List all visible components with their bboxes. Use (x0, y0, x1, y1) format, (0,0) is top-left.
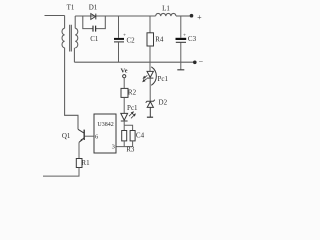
transistor Q1 (78, 129, 84, 158)
zener diode D2 (146, 100, 155, 118)
svg-text:C1: C1 (90, 35, 99, 43)
resistor R1 (76, 159, 82, 168)
arrows of Pc1 right (143, 75, 147, 81)
svg-text:Pc1: Pc1 (127, 104, 138, 112)
diode D1 (91, 14, 96, 20)
optocoupler led Pc1 right (147, 67, 156, 86)
node Ve terminal (123, 75, 126, 78)
svg-text:C3: C3 (188, 35, 197, 43)
svg-text:D2: D2 (159, 99, 168, 107)
snubber wires around C1 (83, 16, 106, 29)
wire R2 to optocoupler led (123, 97, 125, 113)
svg-text:Ve: Ve (121, 68, 128, 75)
svg-text:C2: C2 (127, 36, 136, 44)
optocoupler photodiode Pc1 left (121, 113, 128, 121)
wire Pc1 to D2 (149, 78, 151, 101)
arrows of Pc1 left (129, 112, 135, 118)
wire base to pin6 (84, 135, 94, 137)
capacitor C4 (130, 131, 135, 141)
wire secondary top lead (74, 16, 76, 28)
svg-text:R2: R2 (128, 89, 137, 97)
transformer T1 core (70, 25, 72, 52)
wire R3 bottom (123, 141, 125, 147)
svg-text:R4: R4 (155, 36, 164, 44)
svg-text:R1: R1 (81, 159, 90, 167)
wire primary bottom lead (65, 48, 78, 130)
wire junction down (123, 125, 125, 130)
wire led to junction (123, 121, 125, 125)
wire Ve to R2 (123, 78, 125, 89)
transformer T1 primary winding (62, 28, 65, 48)
wire secondary bottom lead (73, 48, 75, 62)
arrow of Q1 emitter (80, 139, 83, 142)
ic U3842 box (94, 114, 116, 153)
wire top rail right (176, 15, 192, 17)
wire input left (45, 15, 65, 17)
capacitor C2 (114, 16, 124, 62)
svg-text:R3: R3 (126, 145, 135, 153)
wire pin3 to R3 C4 (116, 146, 133, 148)
svg-text:L1: L1 (162, 5, 170, 13)
svg-text:−: − (199, 58, 204, 67)
wire junction to C4 branch (124, 125, 132, 130)
node minus output (193, 61, 197, 65)
wire bottom rail (74, 61, 194, 63)
node plus output (190, 14, 194, 18)
wire C4 bottom (132, 141, 134, 147)
inductor L1 (156, 13, 176, 16)
svg-text:C4: C4 (136, 131, 145, 139)
wire top rail (75, 15, 155, 17)
capacitor C3 (176, 16, 187, 70)
transformer T1 secondary winding (75, 28, 78, 48)
svg-text:Q1: Q1 (62, 132, 71, 140)
wire R1 bottom (43, 168, 79, 177)
svg-text:T1: T1 (67, 4, 75, 12)
capacitor C1 (93, 26, 96, 32)
resistor R3 (122, 131, 127, 141)
resistor R2 (121, 88, 128, 97)
svg-text:+: + (197, 13, 202, 22)
wire rail to Pc1 right (149, 62, 151, 71)
resistor R4 (147, 16, 154, 62)
svg-text:D1: D1 (89, 4, 98, 12)
svg-text:U3842: U3842 (97, 122, 113, 128)
svg-text:+: + (183, 33, 186, 39)
svg-text:3: 3 (112, 144, 115, 151)
svg-text:Pc1: Pc1 (157, 75, 168, 83)
wire primary top lead (64, 16, 66, 29)
